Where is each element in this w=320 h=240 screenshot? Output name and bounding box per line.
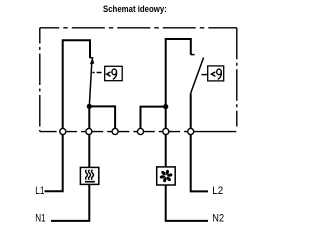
wire: N2 lead [166,185,208,221]
wire: junction to terminal 5 [165,107,167,132]
wire: junction left branch to terminal 4 [141,107,166,132]
svg-text:N2: N2 [212,212,224,224]
svg-text:Schemat ideowy:: Schemat ideowy: [103,4,167,15]
heater wave 2 [89,170,91,180]
svg-text:N1: N1 [35,212,45,224]
terminal 4 [137,128,143,134]
svg-text:L2: L2 [212,185,223,197]
actuator dash right [202,74,208,76]
wire: right circuit top + left vertical [166,39,191,107]
wire: junction to terminal 2 [88,106,90,131]
thermostat box B1 [105,66,123,80]
wire: junction right branch to terminal 3 [89,106,115,131]
wire: L1 lead [45,132,63,192]
heater base bar [85,181,95,183]
frame bottom border [40,131,237,133]
junction dot right [163,104,168,109]
label <theta B1 [107,69,117,79]
fan box M1 [157,167,176,185]
frame right border [236,28,238,127]
wire: terminal 5 to fan [165,132,167,167]
wire: left circuit top + left vertical [63,40,90,131]
svg-text:L1: L1 [35,185,44,197]
actuator dashed link left seg2 [97,72,102,74]
terminal 5 [163,128,169,134]
terminal 6 [188,128,194,134]
wire: N1 lead [51,184,89,221]
wire: terminal 2 to heater [88,132,90,168]
terminal 3 [112,128,118,134]
thermostat box B2 [208,66,224,81]
frame left border [39,28,41,132]
contact foot left switch [90,57,93,59]
junction dot left [87,104,92,109]
arrowhead on lever S1 [90,58,94,65]
actuator dashed link left seg1 [92,72,94,74]
contact foot right switch [191,54,195,56]
switch lever S1 (closed, thermal) [89,61,92,106]
heater box E1 [80,167,98,184]
fan rotor [159,170,173,183]
heater wave 1 [86,170,88,180]
switch lever S2 (open, thermal) [191,58,204,94]
wire: lever bottom to terminal 6 [190,93,192,131]
label <theta B2 [212,69,222,79]
terminal 2 [86,128,92,134]
frame top border [40,27,237,29]
terminal 1 [60,128,66,134]
wire: L2 lead [191,132,208,192]
heater wave 3 [92,170,94,180]
